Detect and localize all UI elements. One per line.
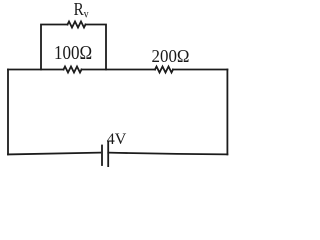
svg-text:200Ω: 200Ω [152,46,190,67]
svg-text:Rv: Rv [74,0,90,21]
svg-text:4V: 4V [107,131,127,148]
svg-text:100Ω: 100Ω [54,42,92,65]
